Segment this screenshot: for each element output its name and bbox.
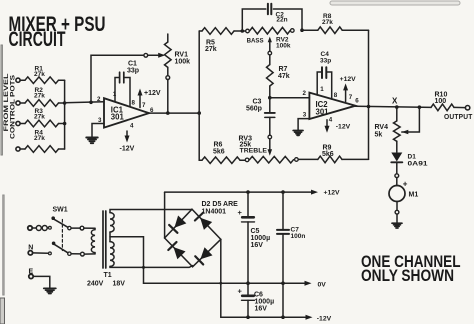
input terminal 1 bbox=[16, 78, 20, 82]
ground M1 bbox=[392, 223, 402, 228]
note ONE CHANNEL ONLY SHOWN bbox=[361, 253, 461, 285]
label C6 1000u 16V bbox=[254, 292, 274, 313]
junction blob centre-tap crossing bbox=[142, 266, 145, 269]
svg-text:16V: 16V bbox=[251, 242, 264, 249]
label M1 plus bbox=[403, 180, 408, 189]
svg-text:27k: 27k bbox=[34, 71, 45, 78]
pin 6 label IC1 bbox=[150, 107, 154, 114]
wire 0V rail bbox=[144, 282, 309, 284]
resistor R3 bbox=[25, 120, 65, 127]
label C6 plus bbox=[238, 287, 243, 296]
power -12V arrow bbox=[306, 315, 332, 323]
wiper arrow RV1 bbox=[158, 53, 165, 58]
svg-text:560p: 560p bbox=[246, 106, 262, 113]
resistor R2 bbox=[25, 100, 65, 107]
wire input 3 bbox=[20, 123, 25, 125]
power -12V IC2 bbox=[325, 120, 351, 133]
node C5 bottom bbox=[246, 281, 250, 285]
resistor R5 bbox=[199, 28, 245, 35]
node feedback rail bbox=[367, 105, 371, 109]
svg-text:301: 301 bbox=[111, 113, 125, 122]
svg-text:0A91: 0A91 bbox=[408, 160, 428, 167]
svg-text:+: + bbox=[238, 287, 243, 296]
wire feedback IC1 bbox=[91, 55, 144, 102]
wiper RV3 arrow bbox=[268, 139, 273, 156]
node C7 bottom bbox=[281, 281, 285, 285]
wire N bbox=[33, 252, 49, 254]
svg-text:D2 D5 ARE: D2 D5 ARE bbox=[202, 201, 239, 208]
label R10 100 bbox=[435, 92, 448, 106]
svg-text:240V: 240V bbox=[87, 281, 104, 288]
transformer T1 secondary lower coil bbox=[110, 242, 114, 267]
label R4 27k bbox=[34, 130, 45, 142]
junction blob bridge-minus 0V crossing bbox=[219, 282, 222, 285]
transformer T1 core bbox=[103, 211, 106, 268]
capacitor C1 bbox=[115, 72, 130, 106]
pin 1 label IC1 bbox=[113, 91, 117, 98]
svg-text:-12V: -12V bbox=[317, 315, 332, 322]
wire M1 bottom bbox=[396, 202, 398, 211]
svg-text:47k: 47k bbox=[278, 73, 290, 80]
svg-text:1000µ: 1000µ bbox=[251, 235, 271, 242]
svg-text:1: 1 bbox=[113, 91, 117, 98]
pin 2 label IC2 bbox=[303, 90, 307, 97]
node X bbox=[392, 97, 399, 109]
svg-text:1: 1 bbox=[320, 86, 324, 93]
wire M1 to ground bbox=[396, 214, 398, 223]
op-amp U2 IC2 triangle bbox=[309, 93, 355, 119]
capacitor C6 bbox=[242, 283, 255, 317]
label C4 33p bbox=[320, 51, 331, 65]
label RV3 25k TREBLE bbox=[239, 136, 268, 155]
resistor R8 bbox=[302, 27, 369, 34]
mains E terminal bbox=[29, 274, 33, 278]
transformer T1 primary coil bbox=[91, 228, 95, 254]
capacitor C4 bbox=[317, 67, 332, 99]
bridge wires bbox=[165, 209, 221, 267]
label R5 27k bbox=[205, 40, 217, 54]
svg-text:SW1: SW1 bbox=[53, 207, 68, 214]
pin 7 label IC2 bbox=[349, 94, 353, 101]
switch SW1 pole1 lever bbox=[51, 216, 68, 227]
svg-text:+12V: +12V bbox=[340, 76, 357, 83]
switch SW1 link (dashed) bbox=[61, 220, 63, 251]
pin 8 label IC1 bbox=[132, 100, 136, 107]
label R9 5k6 bbox=[322, 145, 334, 159]
switch SW1 pole1 contact bbox=[49, 226, 52, 229]
label SW1 bbox=[53, 207, 68, 214]
svg-text:+12V: +12V bbox=[144, 90, 161, 97]
svg-text:18V: 18V bbox=[113, 281, 126, 288]
svg-text:16V: 16V bbox=[255, 306, 268, 313]
label R8 27k bbox=[322, 13, 333, 26]
label R3 27k bbox=[34, 108, 45, 120]
switch SW1 pole2 contact bbox=[49, 252, 52, 255]
terminal M1 top bbox=[395, 174, 399, 178]
switch SW1 pole2 lever bbox=[52, 242, 68, 253]
svg-text:6: 6 bbox=[355, 97, 359, 104]
power +12V IC2 bbox=[340, 76, 357, 102]
svg-text:4: 4 bbox=[130, 122, 134, 129]
power +12V IC1 bbox=[138, 89, 161, 108]
potentiometer RV1 bbox=[165, 34, 172, 76]
svg-text:R7: R7 bbox=[279, 66, 288, 73]
diode D3 bbox=[195, 213, 212, 230]
svg-text:22n: 22n bbox=[276, 17, 287, 24]
label C5 1000u 16V bbox=[251, 228, 271, 249]
svg-text:5k6: 5k6 bbox=[322, 151, 334, 158]
node tone input rail bbox=[197, 111, 201, 115]
wire input 1 bbox=[20, 79, 25, 81]
svg-text:100n: 100n bbox=[291, 233, 306, 240]
potentiometer RV4 bbox=[394, 107, 401, 152]
resistor R4 bbox=[25, 146, 65, 153]
svg-text:100: 100 bbox=[435, 98, 447, 105]
svg-text:27k: 27k bbox=[322, 19, 333, 26]
wiper RV2 arrow bbox=[268, 37, 272, 52]
scan smudge top-right bbox=[330, 1, 460, 5]
ground E bbox=[44, 288, 56, 293]
label BASS bbox=[247, 38, 264, 45]
mains N terminal bbox=[28, 251, 32, 255]
svg-text:BASS: BASS bbox=[247, 38, 264, 45]
svg-text:8: 8 bbox=[132, 100, 136, 107]
wire L bbox=[32, 227, 36, 229]
label 240V 18V bbox=[87, 281, 125, 288]
label R7 47k bbox=[278, 66, 290, 80]
wire wiper RV1 bbox=[148, 54, 158, 56]
node RV4 wiper junction bbox=[418, 105, 422, 109]
svg-text:33p: 33p bbox=[127, 68, 139, 75]
switch SW1 pole1 out bbox=[68, 226, 80, 229]
pin 3 label IC1 bbox=[98, 117, 102, 124]
svg-text:1000µ: 1000µ bbox=[255, 299, 275, 306]
wire IC1 output bbox=[149, 112, 199, 114]
switch SW1 pole2 out bbox=[68, 252, 80, 255]
scan smudge bottom-left bbox=[0, 298, 5, 324]
svg-text:RV1: RV1 bbox=[175, 52, 189, 59]
node C7 top bbox=[281, 190, 285, 194]
svg-text:RV4: RV4 bbox=[375, 124, 389, 131]
label C5 plus bbox=[238, 208, 243, 217]
label IC1 301 bbox=[111, 106, 125, 122]
mains L terminal bbox=[28, 226, 32, 230]
label C1 33p bbox=[127, 61, 139, 75]
wiper RV4 bbox=[402, 107, 420, 134]
svg-text:2: 2 bbox=[97, 96, 101, 103]
node C2 left bbox=[241, 29, 245, 33]
wire secondary top bbox=[110, 210, 192, 213]
svg-text:C3: C3 bbox=[253, 99, 262, 106]
wire +12V rail bbox=[165, 191, 315, 193]
node bus-R2 bbox=[63, 101, 67, 105]
svg-text:TREBLE: TREBLE bbox=[240, 148, 268, 155]
svg-text:5k: 5k bbox=[375, 132, 383, 139]
svg-text:8: 8 bbox=[334, 92, 338, 99]
op-amp U1 IC1 triangle bbox=[104, 98, 149, 127]
diode D4 bbox=[168, 242, 185, 259]
resistor R6 bbox=[199, 157, 245, 164]
svg-text:+: + bbox=[403, 180, 408, 189]
label D2 D5 ARE 1N4001 bbox=[202, 201, 239, 216]
svg-text:100k: 100k bbox=[175, 59, 191, 66]
label R1 27k bbox=[34, 65, 45, 78]
pin 7 label IC1 bbox=[142, 102, 146, 109]
wire E to ground bbox=[33, 276, 50, 287]
input terminal 2 bbox=[16, 101, 20, 105]
pin 8 label IC2 bbox=[334, 92, 338, 99]
transformer T1 secondary upper coil bbox=[110, 213, 114, 232]
label RV2 100k bbox=[276, 37, 291, 50]
node C7 rail crossing bbox=[281, 315, 285, 319]
potentiometer RV3 TREBLE bbox=[245, 156, 298, 163]
terminal C3-RV3 bbox=[268, 135, 272, 139]
svg-text:-12V: -12V bbox=[120, 146, 135, 153]
svg-text:+: + bbox=[238, 208, 243, 217]
wire bridge plus bbox=[164, 192, 166, 238]
resistor R10 bbox=[431, 104, 465, 111]
svg-text:5k6: 5k6 bbox=[213, 149, 225, 156]
label C7 100n bbox=[291, 227, 306, 240]
svg-text:4: 4 bbox=[329, 116, 333, 123]
label C3 560p bbox=[246, 99, 262, 113]
wire IC1 pin3 bbox=[92, 124, 104, 137]
wire IC2 pin3 bbox=[298, 119, 309, 131]
power -12V IC1 bbox=[120, 131, 135, 153]
wire centre tap bbox=[110, 237, 144, 283]
wire input 4 bbox=[20, 148, 25, 150]
svg-text:ONLY SHOWN: ONLY SHOWN bbox=[361, 267, 454, 285]
svg-text:2: 2 bbox=[303, 90, 307, 97]
svg-text:0V: 0V bbox=[318, 281, 327, 288]
svg-text:X: X bbox=[392, 97, 398, 106]
pin 3 label IC2 bbox=[303, 111, 307, 118]
pin 2 label IC1 bbox=[97, 96, 101, 103]
meter M1 bbox=[389, 186, 405, 202]
capacitor C7 bbox=[277, 192, 289, 317]
diode D1 bbox=[391, 153, 402, 174]
svg-text:7: 7 bbox=[142, 102, 146, 109]
wire IC2 output bbox=[356, 106, 432, 107]
terminal RV1 bottom bbox=[166, 76, 170, 80]
label R6 5k6 bbox=[213, 142, 225, 156]
fuse FS1 bbox=[36, 226, 48, 231]
label CONTROL POTS (rotated) bbox=[10, 74, 17, 139]
label N bbox=[28, 244, 33, 251]
resistor R7 bbox=[267, 55, 274, 98]
svg-text:C1: C1 bbox=[128, 61, 137, 68]
svg-text:CONTROL POTS: CONTROL POTS bbox=[10, 74, 17, 139]
label FROM LEVEL (rotated) bbox=[3, 73, 10, 131]
capacitor C3 bbox=[265, 98, 275, 136]
terminal M1 bottom bbox=[395, 210, 399, 214]
svg-text:33p: 33p bbox=[320, 57, 331, 64]
svg-text:27k: 27k bbox=[34, 135, 45, 142]
ground IC2 bbox=[293, 131, 303, 136]
svg-text:1N4001: 1N4001 bbox=[202, 209, 227, 216]
node feedback junction IC1 bbox=[89, 101, 93, 105]
label D1 0A91 bbox=[408, 154, 428, 168]
scan edge artifact left lower bbox=[3, 195, 4, 295]
potentiometer RV2 bbox=[246, 27, 294, 34]
diode D2 bbox=[169, 216, 186, 233]
node bus-R3 bbox=[63, 122, 67, 126]
wire right rail bbox=[368, 30, 370, 159]
svg-text:M1: M1 bbox=[409, 192, 419, 199]
pin 1 label IC2 bbox=[320, 86, 324, 93]
label T1 bbox=[104, 272, 112, 279]
node C6 bottom rail bbox=[246, 315, 250, 319]
diode D5 bbox=[195, 247, 212, 264]
wire tone left rail bbox=[198, 31, 200, 160]
wire secondary link bbox=[109, 232, 111, 242]
node R8 junction bbox=[300, 28, 304, 32]
transformer T1 primary terminal top bbox=[80, 226, 95, 230]
scan edge artifact left upper bbox=[1, 45, 2, 155]
wire secondary bottom bbox=[110, 266, 193, 268]
wire to IC1 pin2 bbox=[65, 102, 104, 103]
svg-text:OUTPUT: OUTPUT bbox=[444, 114, 473, 121]
wire bridge minus bbox=[220, 239, 222, 317]
svg-text:301: 301 bbox=[316, 108, 330, 117]
label R2 27k bbox=[34, 87, 45, 99]
svg-text:100k: 100k bbox=[276, 42, 291, 49]
node C5 top bbox=[246, 190, 250, 194]
resistor R9 bbox=[298, 156, 368, 163]
node R7 bottom bbox=[268, 96, 272, 100]
transformer T1 primary terminal bottom bbox=[81, 252, 96, 256]
label IC2 301 bbox=[316, 100, 330, 116]
resistor R1 bbox=[25, 77, 65, 84]
input terminal 3 bbox=[16, 121, 20, 125]
pin 4 label IC2 bbox=[329, 116, 333, 123]
svg-text:3: 3 bbox=[303, 111, 307, 118]
svg-text:27k: 27k bbox=[34, 114, 45, 121]
capacitor C2 bbox=[242, 4, 302, 31]
svg-text:7: 7 bbox=[349, 94, 353, 101]
power +12V arrow bbox=[311, 190, 340, 197]
svg-text:R6: R6 bbox=[214, 142, 223, 149]
wire to M1 bbox=[396, 178, 398, 186]
svg-text:27k: 27k bbox=[205, 46, 217, 53]
svg-text:27k: 27k bbox=[34, 92, 45, 99]
label E bbox=[29, 269, 34, 276]
svg-text:T1: T1 bbox=[104, 272, 112, 279]
wire RV1 to output bbox=[167, 80, 169, 114]
node RV1-output bbox=[166, 111, 170, 115]
pin 6 label IC2 bbox=[355, 97, 359, 104]
capacitor C5 bbox=[242, 192, 255, 283]
svg-text:+12V: +12V bbox=[324, 190, 341, 197]
label RV1 100k bbox=[175, 52, 191, 66]
wire -12V rail bbox=[221, 316, 309, 318]
wire input 2 bbox=[20, 102, 25, 104]
svg-text:C6: C6 bbox=[254, 292, 263, 299]
svg-text:CIRCUIT: CIRCUIT bbox=[9, 28, 66, 51]
label C2 22n bbox=[276, 11, 288, 23]
wire to IC2 pin2 bbox=[270, 97, 310, 99]
ground IC1 bbox=[86, 138, 98, 144]
power 0V arrow bbox=[305, 281, 327, 289]
output terminal bbox=[465, 106, 469, 110]
label M1 bbox=[409, 192, 419, 199]
wire input bus bbox=[64, 80, 66, 149]
svg-text:-12V: -12V bbox=[336, 124, 351, 131]
label OUTPUT bbox=[444, 114, 473, 121]
title text MIXER + PSU CIRCUIT bbox=[9, 12, 106, 51]
terminal on RV1 wiper wire bbox=[144, 53, 148, 57]
label RV4 5k bbox=[375, 124, 389, 139]
pin 4 label IC1 bbox=[130, 122, 134, 129]
svg-text:C5: C5 bbox=[251, 228, 260, 235]
terminal RV2 wiper bbox=[268, 51, 272, 55]
input terminal 4 bbox=[16, 147, 20, 151]
